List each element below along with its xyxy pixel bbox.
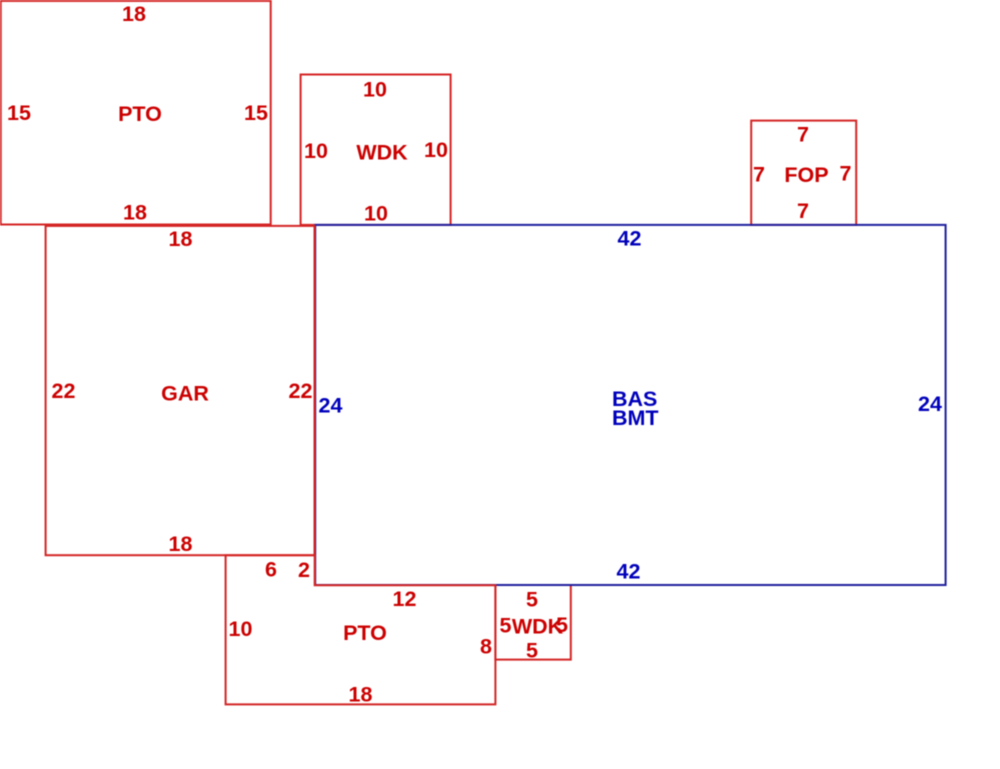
svg-text:5: 5 xyxy=(500,614,512,638)
svg-text:18: 18 xyxy=(169,227,193,251)
svg-text:7: 7 xyxy=(753,163,765,187)
area GAR outline xyxy=(46,226,315,555)
svg-text:10: 10 xyxy=(304,139,328,163)
svg-text:22: 22 xyxy=(289,379,313,403)
svg-text:22: 22 xyxy=(52,379,76,403)
svg-text:42: 42 xyxy=(617,560,641,584)
svg-text:10: 10 xyxy=(424,138,448,162)
svg-text:10: 10 xyxy=(363,78,387,102)
svg-text:GAR: GAR xyxy=(161,382,209,406)
svg-text:5: 5 xyxy=(526,639,538,663)
svg-text:7: 7 xyxy=(840,162,852,186)
svg-text:18: 18 xyxy=(123,201,147,225)
area FOP outline xyxy=(751,121,856,225)
svg-text:PTO: PTO xyxy=(343,621,387,645)
svg-text:24: 24 xyxy=(319,394,343,418)
svg-text:15: 15 xyxy=(244,101,268,125)
svg-text:WDK: WDK xyxy=(356,141,408,165)
area BAS/BMT outline (blue) xyxy=(315,225,945,585)
svg-text:24: 24 xyxy=(918,392,942,416)
svg-text:10: 10 xyxy=(364,202,388,226)
area WDK2 outline (lower wood deck) xyxy=(495,585,570,660)
area WDK1 outline (upper wood deck) xyxy=(301,75,451,225)
svg-text:5: 5 xyxy=(556,613,568,637)
svg-text:12: 12 xyxy=(393,587,417,611)
svg-text:18: 18 xyxy=(169,532,193,556)
svg-text:5: 5 xyxy=(526,588,538,612)
svg-text:7: 7 xyxy=(797,123,809,147)
svg-text:18: 18 xyxy=(349,683,373,707)
svg-text:18: 18 xyxy=(122,2,146,26)
svg-text:7: 7 xyxy=(797,199,809,223)
area PTO1 outline (top-left patio) xyxy=(1,1,271,225)
svg-text:FOP: FOP xyxy=(784,163,828,187)
svg-text:10: 10 xyxy=(229,617,253,641)
svg-text:2: 2 xyxy=(298,558,310,582)
area PTO2 outline (bottom patio, L-shape) xyxy=(226,555,496,704)
svg-text:8: 8 xyxy=(480,635,492,659)
svg-text:BMT: BMT xyxy=(612,406,659,430)
svg-text:PTO: PTO xyxy=(118,102,162,126)
svg-text:42: 42 xyxy=(618,227,642,251)
svg-text:15: 15 xyxy=(7,101,31,125)
svg-text:6: 6 xyxy=(265,558,277,582)
